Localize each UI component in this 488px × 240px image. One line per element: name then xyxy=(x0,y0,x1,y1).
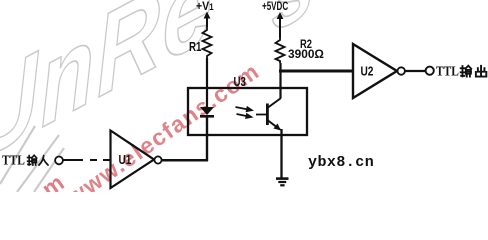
watermark gray s letter xyxy=(269,0,316,54)
wire R1 to U3 box xyxy=(206,58,208,89)
svg-text:+5VDC: +5VDC xyxy=(262,1,289,14)
output terminal xyxy=(426,67,434,75)
label U2 xyxy=(361,64,374,78)
svg-text:R1: R1 xyxy=(189,41,201,54)
optocoupler U3 box xyxy=(188,88,307,135)
wire node A to U2 input xyxy=(279,70,353,73)
phototransistor inside U3 xyxy=(256,98,281,131)
label TTL (input) xyxy=(2,153,25,168)
label U3 xyxy=(234,76,246,89)
resistor R2 xyxy=(276,38,285,63)
svg-text:TTL: TTL xyxy=(2,153,25,168)
inverter U2 xyxy=(353,44,405,98)
wire emitter to ground xyxy=(280,129,282,178)
watermark red fragment m xyxy=(37,169,69,202)
label shu of shuru xyxy=(28,155,37,165)
LED inside U3 xyxy=(200,89,214,161)
svg-text:ybx8.cn: ybx8.cn xyxy=(308,154,374,171)
power arrow +V1 xyxy=(204,12,211,28)
label chu of shuchu xyxy=(476,66,486,77)
input terminal xyxy=(55,157,63,165)
ground xyxy=(276,179,289,186)
label R1 xyxy=(189,41,201,54)
label R2 xyxy=(300,38,312,51)
light arrows xyxy=(236,106,255,119)
label ybx8.cn xyxy=(308,154,374,171)
svg-text:U1: U1 xyxy=(119,153,132,167)
svg-text:3900Ω: 3900Ω xyxy=(288,47,324,61)
svg-text:+V1: +V1 xyxy=(196,0,214,13)
label ru of shuru xyxy=(39,156,48,165)
label shu of shuchu xyxy=(461,66,472,77)
label +5VDC xyxy=(262,1,289,14)
label +V1 xyxy=(196,0,214,13)
svg-text:TTL: TTL xyxy=(436,64,459,79)
svg-text:U3: U3 xyxy=(234,76,246,89)
watermark red www.elecfans.com xyxy=(61,57,264,210)
watermark gray corner strokes xyxy=(0,126,64,192)
watermark gray UnRe letters xyxy=(0,0,216,187)
svg-text:m: m xyxy=(37,169,69,192)
label TTL (output) xyxy=(436,64,459,79)
inverter U1 xyxy=(111,131,162,189)
label U1 xyxy=(119,153,132,167)
dashed input wire xyxy=(64,159,111,161)
wire LED cathode to U1 output xyxy=(162,159,208,162)
wire U2 to output terminal xyxy=(405,70,426,72)
svg-text:U2: U2 xyxy=(361,64,374,78)
label 3900 ohm xyxy=(288,47,324,61)
power arrow +5VDC xyxy=(277,12,284,38)
wire R2 down to node A and into U3 xyxy=(279,63,281,98)
resistor R1 xyxy=(203,27,212,58)
